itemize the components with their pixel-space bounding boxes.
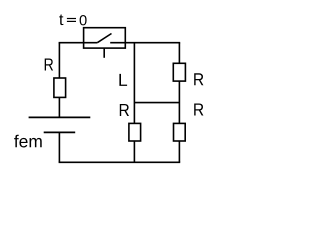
label R right upper xyxy=(194,73,203,85)
wire battery to bottom rail xyxy=(58,132,60,162)
label fem xyxy=(14,135,42,148)
resistor R right lower xyxy=(174,123,186,141)
label 0 of t=0 xyxy=(80,15,87,25)
label L xyxy=(119,74,127,86)
label R left xyxy=(45,59,53,71)
label t of t=0 xyxy=(59,15,63,26)
wire top left horizontal with switch pivot stub xyxy=(59,42,98,44)
resistor R right upper xyxy=(173,63,185,81)
battery fem long plate xyxy=(29,116,91,118)
label R middle xyxy=(120,104,129,116)
switch S bottom stub wire xyxy=(103,48,105,58)
switch S lever xyxy=(97,34,111,43)
wire inductor branch vertical xyxy=(133,43,135,163)
wire middle horizontal node xyxy=(134,102,179,104)
label t=0 xyxy=(59,15,86,26)
label R right lower xyxy=(194,104,203,116)
resistor R middle lower xyxy=(129,123,141,141)
switch S box xyxy=(84,28,126,48)
battery fem short plate xyxy=(44,131,75,133)
wire top right horizontal with switch right contact xyxy=(110,42,180,44)
wire bottom horizontal xyxy=(59,161,181,163)
resistor R left xyxy=(54,78,66,97)
wire left vertical (top rail to battery) xyxy=(58,43,60,118)
equals sign of t=0 xyxy=(67,18,76,19)
wire right branch vertical (top rail to bottom rail) xyxy=(178,43,180,163)
